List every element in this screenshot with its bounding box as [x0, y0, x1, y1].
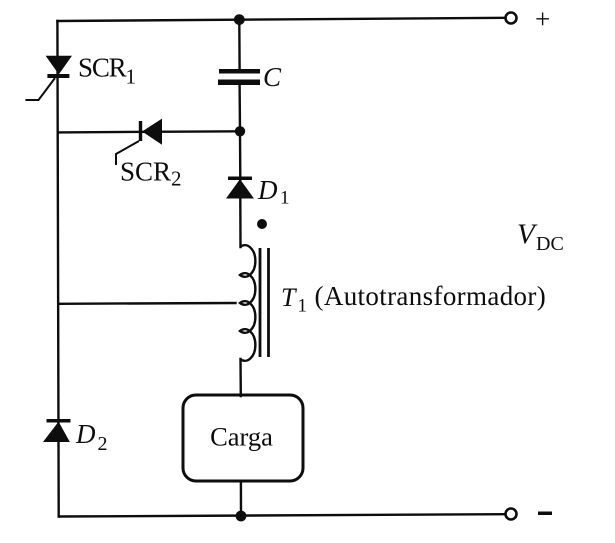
diode D2: [44, 419, 71, 442]
wire bottom rail: [59, 514, 505, 516]
wire capacitor top lead: [238, 20, 241, 69]
diode D1: [227, 177, 253, 199]
wire left rail: [57, 21, 58, 517]
transformer core: [260, 248, 269, 357]
svg-text:(Autotransformador): (Autotransformador): [315, 281, 547, 311]
wire top rail: [57, 18, 504, 21]
wire coil to load: [239, 359, 242, 396]
node junction bottom: [236, 511, 247, 522]
svg-text:D: D: [75, 419, 96, 449]
wire load to bottom rail: [240, 481, 243, 516]
node junction top: [234, 14, 245, 25]
svg-text:2: 2: [98, 433, 108, 455]
terminal + (positive): [506, 13, 517, 24]
svg-text:1: 1: [280, 188, 290, 209]
load box Carga: [183, 395, 303, 481]
wire D1 branch: [239, 131, 242, 180]
wire center tap: [58, 302, 235, 305]
SCR1: [25, 56, 71, 100]
SCR2: [116, 120, 162, 166]
svg-text:D: D: [257, 175, 278, 205]
svg-text:DC: DC: [536, 233, 564, 255]
svg-text:+: +: [535, 4, 550, 34]
svg-text:C: C: [263, 62, 282, 92]
svg-text:Carga: Carga: [210, 421, 273, 451]
capacitor C: [218, 69, 260, 85]
inductor T1 winding: [240, 245, 255, 361]
svg-text:V: V: [517, 219, 538, 251]
wire D1 to coil: [239, 198, 242, 247]
svg-text:SCR2: SCR2: [120, 157, 182, 191]
wire SCR2 branch: [58, 131, 240, 132]
node junction mid: [235, 126, 245, 136]
svg-text:SCR1: SCR1: [78, 53, 136, 89]
wire capacitor bottom lead: [238, 85, 241, 131]
transformer polarity dot: [257, 219, 267, 229]
svg-text:1: 1: [298, 296, 308, 317]
svg-text:T: T: [281, 283, 297, 312]
terminal - (negative): [506, 509, 517, 520]
label -: [538, 512, 552, 516]
